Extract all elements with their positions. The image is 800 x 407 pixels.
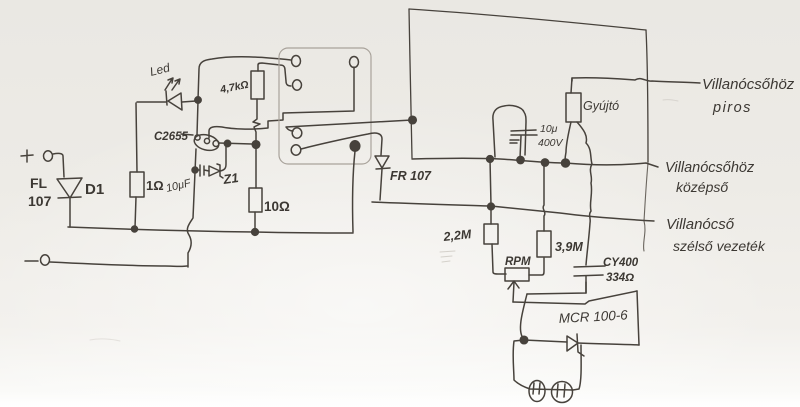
svg-text:FR 107: FR 107 (390, 169, 432, 183)
svg-text:szélső vezeték: szélső vezeték (673, 238, 766, 254)
svg-text:RPM: RPM (505, 256, 531, 268)
svg-text:középső: középső (676, 179, 728, 195)
svg-text:4,7kΩ: 4,7kΩ (218, 79, 249, 96)
svg-text:MCR 100-6: MCR 100-6 (558, 307, 628, 326)
svg-text:Gyújtó: Gyújtó (583, 99, 619, 113)
svg-text:Villanócsőhöz: Villanócsőhöz (665, 160, 755, 176)
svg-text:10μF: 10μF (165, 177, 193, 195)
svg-text:C2655: C2655 (154, 131, 188, 143)
svg-text:10Ω: 10Ω (264, 199, 290, 214)
svg-text:Villanócső: Villanócső (666, 216, 735, 233)
svg-text:CY400: CY400 (603, 257, 639, 269)
svg-text:Z1: Z1 (221, 170, 239, 187)
svg-text:Led: Led (148, 60, 171, 79)
svg-text:Villanócsőhöz: Villanócsőhöz (702, 76, 795, 93)
svg-text:D1: D1 (85, 181, 104, 198)
svg-text:1Ω: 1Ω (146, 178, 164, 193)
svg-text:400V: 400V (538, 137, 564, 149)
svg-text:piros: piros (712, 100, 752, 116)
svg-text:107: 107 (28, 193, 52, 209)
svg-text:3,9M: 3,9M (555, 240, 583, 254)
svg-text:10μ: 10μ (540, 123, 558, 135)
svg-text:334Ω: 334Ω (606, 272, 634, 284)
svg-text:FL: FL (30, 175, 48, 191)
svg-text:2,2M: 2,2M (442, 227, 473, 244)
